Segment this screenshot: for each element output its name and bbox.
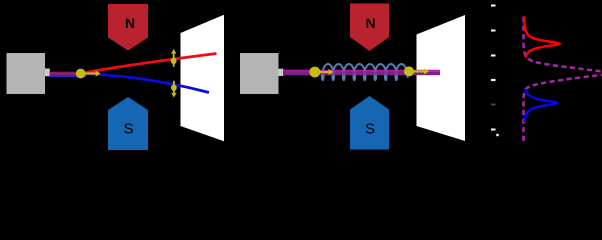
svg-text:N: N <box>125 15 135 31</box>
svg-text:N: N <box>365 15 375 31</box>
svg-text:S: S <box>365 121 375 138</box>
svg-text:S: S <box>123 121 133 138</box>
